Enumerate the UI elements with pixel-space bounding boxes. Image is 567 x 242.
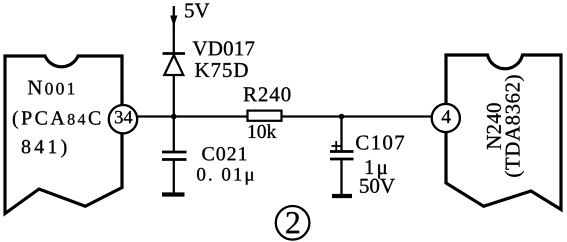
diode VD017 triangle <box>164 55 183 75</box>
5V supply arrow <box>170 16 177 27</box>
pin 4 circle <box>432 104 460 132</box>
label 5V <box>185 4 209 18</box>
label (PCA84C <box>13 111 100 129</box>
node junction dot at VD017/C021 <box>171 114 177 120</box>
capacitor C107 polarity plus <box>332 141 342 151</box>
pin 34 circle <box>109 105 137 133</box>
node junction dot at C107 <box>339 114 345 120</box>
label C107 <box>356 135 404 149</box>
label K75D <box>195 63 248 77</box>
capacitor C021 plates <box>162 152 187 160</box>
label N240 (rotated) <box>487 103 501 149</box>
terminal bar C107 <box>332 194 352 198</box>
wire C107 top lead <box>340 117 342 152</box>
pin 4 number <box>442 110 451 123</box>
label 841) <box>22 139 67 157</box>
pin 34 number <box>115 111 132 123</box>
label 0.01u <box>197 168 254 185</box>
label (TDA8362) (rotated) <box>505 75 524 176</box>
label R240 <box>244 87 291 101</box>
figure number circled 2 <box>276 206 310 240</box>
label 1u <box>366 160 387 178</box>
wire 5V feed vertical through VD017 down to C021 <box>173 6 175 54</box>
label VD017 <box>193 41 255 55</box>
terminal bar C021 <box>162 192 185 196</box>
resistor R240 body <box>248 111 282 121</box>
IC N001 body <box>5 56 122 214</box>
wire diode anode to junction to C021 top <box>173 75 175 152</box>
wire C107 bottom lead <box>340 159 342 196</box>
label C021 <box>202 147 246 161</box>
label 10k <box>249 124 277 138</box>
wire main horizontal from pin 34 to pin 4 <box>137 115 432 117</box>
label 50V <box>360 179 395 193</box>
IC N240 body <box>446 55 561 210</box>
label N001 <box>28 81 74 95</box>
wire C021 bottom lead <box>173 160 175 195</box>
diode VD017 cathode bar <box>163 52 186 55</box>
capacitor C107 plates <box>330 152 354 160</box>
